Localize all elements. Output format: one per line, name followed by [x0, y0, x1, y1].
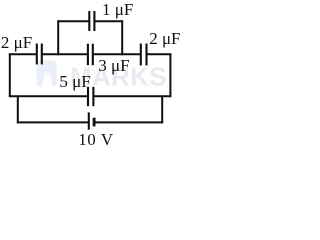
svg-text:1 μF: 1 μF — [102, 0, 133, 19]
capacitor C5 5uF plates — [87, 87, 89, 106]
wire left connector — [17, 96, 19, 123]
wire bottom rail A right — [93, 95, 171, 97]
capacitor C1 1uF plates — [88, 11, 90, 31]
capacitor C2 2uF left plates — [36, 44, 38, 65]
watermark logo — [36, 61, 56, 88]
wire middle rail segment 3 — [93, 53, 141, 55]
svg-text:10 V: 10 V — [78, 130, 114, 149]
wire right connector — [161, 96, 163, 123]
wire middle rail segment 4 — [147, 53, 172, 55]
wire top-right leg — [121, 20, 123, 55]
wire top branch left — [57, 20, 89, 22]
svg-text:2 μF: 2 μF — [149, 29, 180, 48]
wire middle rail segment 2 — [42, 53, 88, 55]
wire left rail — [9, 53, 11, 97]
svg-text:2 μF: 2 μF — [1, 33, 32, 52]
wire right rail — [169, 53, 171, 97]
wire top branch right — [94, 20, 123, 22]
wire battery rail B left — [17, 121, 89, 123]
wire battery rail B right — [94, 121, 163, 123]
capacitor C3 3uF plates — [87, 44, 89, 65]
svg-text:5 μF: 5 μF — [59, 72, 90, 91]
wire top-left leg — [57, 20, 59, 55]
wire middle rail segment 1 — [9, 53, 37, 55]
battery V1 long plate — [88, 112, 90, 129]
svg-text:3 μF: 3 μF — [98, 56, 129, 75]
wire bottom rail A left — [9, 95, 88, 97]
battery V1 short plate — [93, 118, 96, 127]
capacitor C4 2uF right plates — [140, 44, 142, 66]
